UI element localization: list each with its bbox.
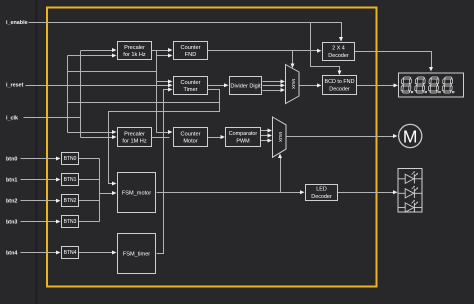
svg-text:BTN0: BTN0 (64, 156, 77, 162)
svg-text:Precaler: Precaler (124, 131, 145, 137)
block BTN1 (62, 174, 79, 186)
wire branch down to MUX1 select (292, 51, 294, 67)
wire LED decoder out to LEDs (338, 192, 394, 194)
svg-text:Decoder: Decoder (328, 53, 349, 59)
wire bus to FSM_motor in2 (100, 193, 114, 195)
svg-text:i_enable: i_enable (6, 20, 28, 26)
wire BTN out y200.7 (79, 200, 100, 202)
svg-text:FSM_timer: FSM_timer (123, 252, 150, 258)
block Precaler for 1k Hz (118, 42, 152, 60)
arrow Divider in (224, 83, 229, 87)
faint panel divider line (36, 0, 38, 304)
svg-text:Counter: Counter (181, 80, 201, 86)
svg-text:MUX: MUX (278, 132, 283, 142)
svg-text:BTN4: BTN4 (64, 250, 77, 256)
arrow MUX1 in (281, 83, 286, 87)
arrow 1k in1 (112, 48, 117, 52)
arrow Counter Timer in1 (168, 80, 173, 84)
wire A to prescaler1k in2 (68, 55, 114, 57)
svg-text:for 1M Hz: for 1M Hz (122, 139, 146, 145)
arrow MUX1 in (281, 88, 286, 92)
wire branch up to MUX2 select (280, 158, 282, 193)
wire stair horizontal A to S (68, 71, 157, 73)
svg-text:BTN3: BTN3 (64, 219, 77, 225)
wire BCD out to 7-segment display (357, 85, 395, 87)
block BTN2 (62, 195, 79, 207)
arrow 1M in2 (112, 135, 117, 139)
wire btn0 wire (21, 158, 58, 160)
arrow Counter Timer in2 (168, 83, 173, 87)
wire S to Counter Motor in1 (157, 132, 170, 134)
wire BTN bus vertical (99, 159, 101, 222)
svg-text:Counter: Counter (181, 45, 201, 51)
block FSM_timer (118, 234, 156, 274)
block BTN3 (62, 216, 79, 228)
arrow LED block in (393, 190, 398, 194)
block FSM_motor (118, 173, 156, 213)
arrow FSM_motor in1 (112, 182, 117, 186)
wire Comparator out y130.5 (261, 130, 269, 132)
wire FSM_timer out to Counter Timer in3 (157, 90, 170, 254)
arrow display in (394, 83, 399, 87)
wire BTN out y158.5 (79, 158, 100, 160)
svg-text:MUX: MUX (291, 79, 296, 89)
svg-text:i_reset: i_reset (6, 82, 24, 88)
svg-text:M: M (403, 126, 418, 146)
block 2x4 Decoder (323, 43, 355, 61)
svg-text:for 1k Hz: for 1k Hz (123, 52, 146, 58)
svg-text:Decoder: Decoder (329, 87, 350, 93)
wire H1 horizontal (68, 102, 220, 104)
arrow MUX2 in (268, 129, 273, 133)
block BCD to FND Decoder (323, 76, 357, 95)
wire i_enable to 2x4 decoder top (29, 23, 342, 41)
block Counter FND (174, 42, 208, 60)
wire Counter Timer out2 to FSM_motor in1 (109, 90, 220, 184)
arrow btn2 (56, 199, 61, 203)
wire Counter Timer out1 to Divider Digit (208, 85, 226, 87)
wire MUX2 out to motor (287, 136, 395, 138)
arrow MUX2 select (278, 154, 282, 159)
wire prescaler1M out wait (151, 137, 170, 139)
arrow 1M in1 (112, 130, 117, 134)
svg-text:btn3: btn3 (6, 219, 17, 225)
wire MUX1 out to BCD decoder (300, 85, 319, 87)
wire BTN4 out to FSM_timer (79, 252, 114, 254)
wire Divider out y90.0 (263, 90, 282, 92)
arrow LED decoder in (300, 190, 305, 194)
svg-text:i_clk: i_clk (6, 116, 18, 122)
wire prescaler1k out to Counter FND in1 (152, 50, 170, 52)
arrow motor in (393, 134, 398, 138)
svg-text:FSM_motor: FSM_motor (122, 191, 151, 197)
svg-text:Timer: Timer (183, 87, 197, 93)
svg-text:LED: LED (316, 187, 327, 193)
wire i_clk to prescaler1M in2 (81, 137, 114, 139)
svg-text:btn4: btn4 (6, 250, 17, 256)
wire S to Counter FND in2 (157, 55, 170, 57)
arrow btn3 (56, 220, 61, 224)
wire btn1 wire (21, 179, 58, 181)
svg-text:BTN2: BTN2 (64, 198, 77, 204)
svg-text:FND: FND (185, 52, 197, 58)
svg-text:PWM: PWM (236, 139, 250, 145)
wire BTN out y221.5 (79, 221, 100, 223)
wire Comparator out y140.5 (261, 140, 269, 142)
block LED Decoder (306, 185, 338, 201)
arrow FSM_motor in2 (112, 191, 117, 195)
arrow FND in1 (168, 48, 173, 52)
arrow 2x4 in (317, 49, 322, 53)
block BTN0 (62, 153, 79, 165)
wire Divider out y81.5 (263, 81, 282, 83)
wire Counter Motor out to Comparator PWM (208, 137, 222, 139)
wire Counter FND out to 2x4 decoder (208, 50, 319, 52)
arrow 1k in2 (112, 54, 117, 58)
svg-text:Divider Digit: Divider Digit (230, 84, 261, 90)
wire A to prescaler1M in1 (68, 132, 114, 134)
arrow display top (429, 67, 433, 72)
arrow MUX2 in (268, 134, 273, 138)
block Divider Digit (230, 77, 262, 95)
wire btn3 wire (21, 221, 58, 223)
block Counter Motor (174, 128, 208, 147)
arrow Counter Timer in3 (168, 88, 173, 92)
arrow btn1 (56, 178, 61, 182)
arrow Counter Motor in1 (168, 130, 173, 134)
mux MUX2 (273, 117, 287, 157)
arrow MUX1 select (291, 64, 295, 69)
motor M (399, 124, 422, 147)
wire btn4 wire (21, 252, 58, 254)
svg-text:BCD to FND: BCD to FND (325, 79, 355, 85)
block Precaler for 1M Hz (118, 128, 152, 147)
wire btn2 wire (21, 200, 58, 202)
wire 2x4 out to display top (355, 52, 432, 70)
svg-text:Comparator: Comparator (229, 131, 258, 137)
arrow MUX2 in (268, 139, 273, 143)
mux MUX1 (286, 65, 300, 104)
yellow boundary box (47, 8, 377, 287)
wire i_clk to prescaler1k in1 (81, 50, 114, 52)
arrow Comparator in (221, 135, 226, 139)
arrow FSM_timer in (112, 251, 117, 255)
wire Comparator out y135.5 (261, 135, 269, 137)
arrow FND in2 (168, 54, 173, 58)
arrow into BCD top (338, 71, 342, 76)
arrow btn4 (56, 251, 61, 255)
block Comparator PWM (226, 128, 261, 147)
wire i_reset to Counter Timer in2 (26, 85, 171, 87)
svg-text:Counter: Counter (181, 131, 201, 137)
block BTN4 (62, 247, 79, 259)
svg-text:2 X 4: 2 X 4 (332, 46, 345, 52)
arrow into 2x4 top (339, 37, 343, 42)
svg-text:Precaler: Precaler (124, 45, 145, 51)
svg-text:btn2: btn2 (6, 199, 17, 205)
7-segment display FND (399, 73, 464, 97)
wire BTN out y179.5 (79, 179, 100, 181)
arrow MUX1 in (281, 80, 286, 84)
wire vertical B i_clk riser (80, 51, 82, 138)
svg-text:BTN1: BTN1 (64, 177, 77, 183)
wire i_clk horizontal (24, 117, 81, 119)
svg-text:Motor: Motor (183, 139, 197, 145)
arrow BCD in (317, 83, 322, 87)
svg-text:btn1: btn1 (6, 177, 17, 183)
arrow btn0 (56, 157, 61, 161)
LED block (398, 169, 422, 213)
svg-text:Decoder: Decoder (311, 194, 332, 200)
wire FSM_motor out to LED decoder (157, 192, 302, 194)
wire vertical S (156, 51, 158, 133)
svg-text:btn0: btn0 (6, 156, 17, 162)
wire S to Counter Timer in1 (157, 81, 170, 83)
wire Divider out y85.4 (263, 85, 282, 87)
wire vertical A (67, 56, 69, 133)
block Counter Timer (174, 77, 208, 95)
wire i_enable branch to BCD decoder top (311, 23, 340, 74)
